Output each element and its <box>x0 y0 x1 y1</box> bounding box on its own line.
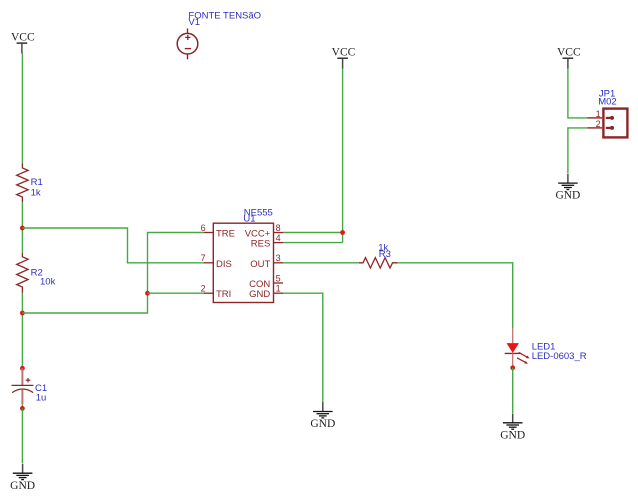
svg-text:R1: R1 <box>31 177 43 188</box>
svg-text:TRI: TRI <box>216 289 231 300</box>
svg-text:U1: U1 <box>243 214 255 225</box>
junction node R1/R2 <box>20 226 25 231</box>
wire pin 4 (RES) to rail <box>283 242 343 244</box>
op-amp U1 NE555 body <box>213 223 273 302</box>
svg-text:V1: V1 <box>188 17 200 28</box>
svg-text:2: 2 <box>201 284 206 294</box>
junction node TRI tap <box>145 291 150 296</box>
svg-text:OUT: OUT <box>250 259 270 270</box>
junction node VCC/pin8 <box>340 230 345 235</box>
svg-text:1u: 1u <box>36 393 47 404</box>
pin 7 DIS stub <box>204 262 213 264</box>
svg-text:10k: 10k <box>40 277 56 288</box>
wire junction to TRE/TRI vertical <box>22 233 204 314</box>
svg-text:M02: M02 <box>598 96 616 107</box>
junction node C1 bottom pin <box>20 406 25 411</box>
svg-text:1: 1 <box>276 284 281 294</box>
wire C1 bottom to GND <box>21 408 23 463</box>
wire VCC to JP1 pin 1 <box>568 68 587 118</box>
pin 2 inner contact (JP1) <box>606 126 614 130</box>
pin 4 RES stub <box>274 242 284 244</box>
capacitor C1 <box>12 368 34 408</box>
ground GND (right, below JP1) <box>555 174 580 202</box>
pin 5 CON stub <box>274 282 284 284</box>
wire VCC rail to pin8/RES <box>342 68 344 242</box>
svg-text:1k: 1k <box>31 188 41 199</box>
svg-text:1: 1 <box>596 109 601 119</box>
wire junction to DIS (pin 7) <box>22 228 204 263</box>
voltage source V1 <box>177 28 198 59</box>
wire pin 8 (VCC+) to rail <box>283 232 343 234</box>
svg-text:GND: GND <box>249 289 270 300</box>
svg-text:DIS: DIS <box>216 259 232 270</box>
svg-text:3: 3 <box>276 253 281 263</box>
pin 2 stub (JP1) <box>587 127 602 129</box>
svg-text:TRE: TRE <box>216 229 235 240</box>
junction node C1 top pin <box>20 366 25 371</box>
power flag VCC (middle, net VCC) <box>332 47 356 69</box>
svg-text:6: 6 <box>201 223 206 233</box>
pin 1 stub (JP1) <box>587 117 602 119</box>
pin 1 GND stub <box>274 292 284 294</box>
ground GND (below U1) <box>310 402 335 430</box>
wire TRI tap to TRI (pin 2) <box>148 292 205 294</box>
wire R3 to LED1 <box>398 263 513 328</box>
pin 6 TRE stub <box>204 232 213 234</box>
wire pin 3 OUT to R3 <box>283 262 359 264</box>
svg-text:5: 5 <box>276 273 281 283</box>
resistor R1 <box>17 163 28 202</box>
power flag VCC (right, net VCC) <box>557 47 581 69</box>
power flag VCC (left, net VCC) <box>11 31 35 53</box>
pin 2 TRI stub <box>204 292 213 294</box>
connector JP1 body <box>603 109 627 138</box>
svg-text:LED-0603_R: LED-0603_R <box>532 351 587 362</box>
wire JP1 pin 2 to GND <box>568 128 587 173</box>
pin 1 inner contact (JP1) <box>606 116 614 120</box>
svg-text:4: 4 <box>276 233 281 243</box>
svg-text:8: 8 <box>276 223 281 233</box>
svg-text:RES: RES <box>251 239 271 250</box>
pin 3 OUT stub <box>274 262 284 264</box>
ground GND (below LED1) <box>500 414 525 442</box>
wire R2 bottom to C1 top <box>21 293 23 369</box>
pin 8 VCC+ stub <box>274 232 284 234</box>
resistor R3 <box>359 258 398 268</box>
LED LED1 <box>505 328 530 368</box>
junction node R2/C1 <box>20 311 25 316</box>
wire LED to GND <box>512 368 514 413</box>
resistor R2 <box>17 253 28 293</box>
wire R1 bottom to R2 top <box>21 202 23 253</box>
svg-text:2: 2 <box>596 119 601 129</box>
wire pin 1 GND to ground <box>283 293 323 402</box>
ground GND (left) <box>10 464 35 492</box>
svg-text:R3: R3 <box>379 249 391 260</box>
svg-text:7: 7 <box>201 253 206 263</box>
junction node LED cathode pin <box>510 365 515 370</box>
wire VCC to R1 top <box>21 54 23 164</box>
